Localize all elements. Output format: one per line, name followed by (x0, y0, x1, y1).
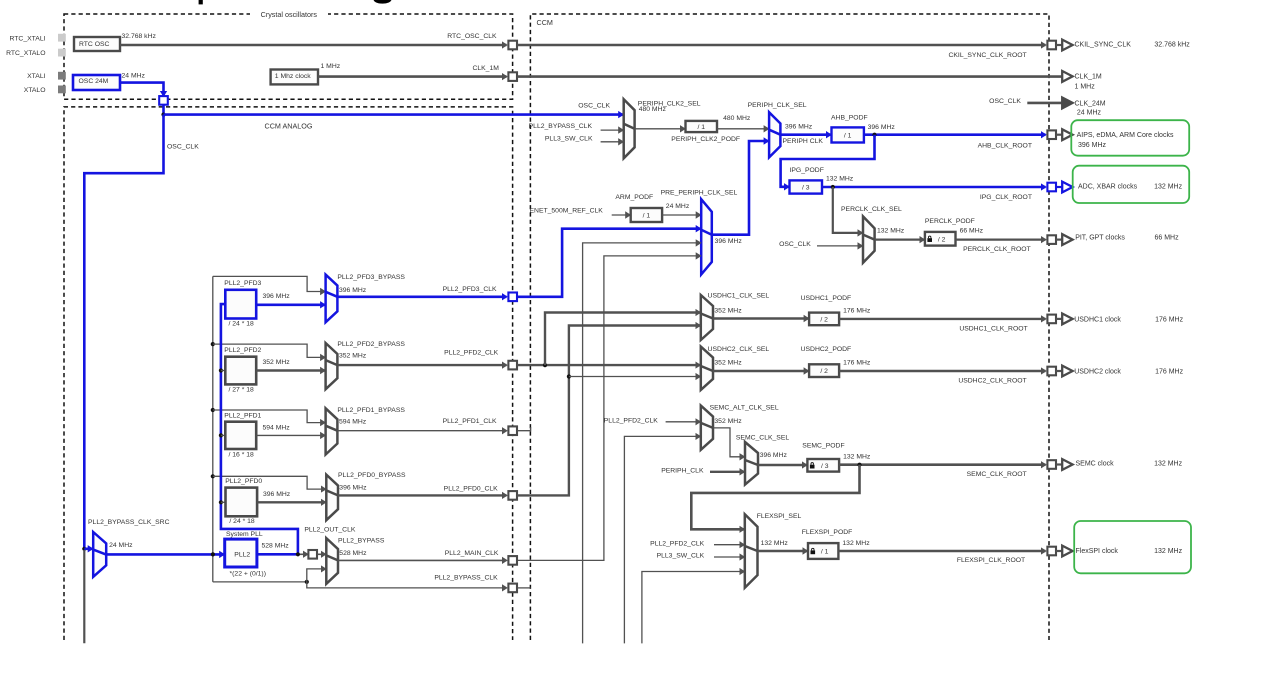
svg-text:FLEXSPI_SEL: FLEXSPI_SEL (757, 513, 802, 520)
svg-text:SEMC_ALT_CLK_SEL: SEMC_ALT_CLK_SEL (710, 404, 779, 411)
svg-text:PERIPH_CLK_SEL: PERIPH_CLK_SEL (748, 102, 807, 109)
title descender fragment 'g' (374, 0, 392, 4)
wire PLL2_PFD0_CLK into CCM (517, 326, 700, 496)
svg-text:24 MHz: 24 MHz (122, 73, 146, 80)
svg-text:OSC 24M: OSC 24M (79, 78, 109, 85)
output arrow PIT, GPT clocks (1056, 239, 1062, 241)
svg-text:/ 2: / 2 (820, 368, 828, 375)
wire bus into PRE_PERIPH in3 (583, 243, 701, 644)
node PLL2 bus PFD1 tap (219, 433, 223, 437)
wire PLL2_MAIN_CLK into PRE_PERIPH in4 (517, 256, 700, 561)
dashed box CCM ANALOG (64, 107, 513, 640)
svg-text:66 MHz: 66 MHz (1155, 235, 1180, 242)
mux PLL2_PFD0_BYPASS (326, 475, 338, 521)
wire FLEXSPI mux out (758, 550, 808, 552)
svg-text:USDHC2_PODF: USDHC2_PODF (801, 346, 852, 353)
svg-text:USDHC2_CLK_ROOT: USDHC2_CLK_ROOT (958, 377, 1026, 384)
svg-text:USDHC1_CLK_SEL: USDHC1_CLK_SEL (708, 293, 770, 300)
wire PLL2_BYPASS_CLK to port (307, 582, 507, 588)
svg-text:528 MHz: 528 MHz (262, 542, 290, 549)
svg-text:PLL2_BYPASS_CLK: PLL2_BYPASS_CLK (529, 123, 593, 130)
output arrow CKIL_SYNC_CLK (1056, 44, 1062, 46)
wire AHB to IPG_PODF (781, 135, 875, 187)
svg-text:PERIPH CLK: PERIPH CLK (783, 138, 824, 145)
svg-text:USDHC1 clock: USDHC1 clock (1074, 317, 1121, 324)
wire PLL2_PFD2_CLK into CCM (517, 364, 700, 366)
svg-text:PLL3_SW_CLK: PLL3_SW_CLK (545, 136, 593, 143)
wire bypass to PLL2_PFD2_BYPASS (213, 344, 325, 357)
wire bus into SEMC_ALT in2 (624, 436, 700, 643)
svg-text:132 MHz: 132 MHz (761, 540, 789, 547)
svg-text:FLEXSPI_CLK_ROOT: FLEXSPI_CLK_ROOT (957, 557, 1025, 564)
svg-text:AHB_PODF: AHB_PODF (831, 115, 868, 122)
svg-text:CLK_24M: CLK_24M (1075, 101, 1106, 108)
port AHB_CLK_ROOT (1047, 130, 1056, 139)
svg-text:480 MHz: 480 MHz (639, 106, 667, 113)
wire SEMC_ALT out to SEMC_CLK_SEL (713, 428, 744, 457)
svg-text:CKIL_SYNC_CLK: CKIL_SYNC_CLK (1075, 42, 1132, 49)
wire CLK_1M across CCM (517, 75, 1062, 78)
wire PLL2_PFD3 out (256, 303, 325, 306)
divider PERIPH_CLK2_PODF (686, 121, 718, 132)
svg-text:396 MHz: 396 MHz (785, 124, 813, 131)
title descender fragment 'p' (199, 0, 203, 4)
node bypass PFD2 (211, 342, 215, 346)
wire PERCLK_CLK_ROOT (956, 239, 1046, 241)
svg-text:PERIPH_CLK: PERIPH_CLK (661, 467, 704, 474)
port CLK_1M (508, 72, 517, 81)
svg-text:OSC_CLK: OSC_CLK (989, 98, 1021, 105)
port USDHC1_CLK_ROOT (1047, 315, 1056, 324)
node bypass PFD1 (211, 408, 215, 412)
wire bypass bus bottom run (213, 581, 307, 583)
dashed box Crystal oscillators (64, 14, 513, 99)
output arrow CLK_24M (1062, 98, 1072, 109)
node bypass PFD0 (211, 474, 215, 478)
svg-text:PLL2_PFD3_BYPASS: PLL2_PFD3_BYPASS (337, 274, 405, 281)
svg-text:*(22 + (0/1)): *(22 + (0/1)) (230, 570, 266, 577)
wire PLL2 out (257, 553, 299, 556)
node OSC_CLK at PLL2_BYPASS_CLK_SRC input (82, 547, 86, 551)
node PFD0 net tap USDHC2 (567, 374, 571, 378)
svg-text:/ 3: / 3 (802, 185, 810, 192)
divider SEMC_PODF (807, 459, 839, 472)
wire ARM_PODF out (662, 214, 700, 216)
divider USDHC2_PODF (809, 364, 839, 377)
svg-text:PLL2_PFD2: PLL2_PFD2 (224, 347, 261, 354)
pin XTALO (58, 86, 66, 94)
svg-text:OSC_CLK: OSC_CLK (167, 144, 199, 151)
svg-text:/ 24 * 18: / 24 * 18 (229, 321, 255, 328)
divider FLEXSPI_PODF (808, 543, 838, 559)
svg-text:PLL2_PFD2_BYPASS: PLL2_PFD2_BYPASS (337, 341, 405, 348)
wire PFD2 branch to USDHC1 (545, 313, 700, 366)
svg-text:396 MHz: 396 MHz (263, 491, 291, 498)
svg-text:CLK_1M: CLK_1M (472, 65, 499, 72)
wire AHB_CLK_ROOT (864, 133, 1046, 136)
svg-text:SEMC clock: SEMC clock (1076, 460, 1115, 467)
svg-text:1 Mhz clock: 1 Mhz clock (275, 73, 311, 80)
port CKIL_SYNC_CLK_ROOT (1047, 41, 1056, 50)
port IPG_CLK_ROOT (1047, 183, 1056, 192)
divider AHB_PODF (832, 127, 864, 142)
svg-text:PLL2_PFD2_CLK: PLL2_PFD2_CLK (650, 540, 704, 547)
svg-text:USDHC2 clock: USDHC2 clock (1074, 369, 1121, 376)
svg-text:24 MHz: 24 MHz (1077, 110, 1102, 117)
svg-text:176 MHz: 176 MHz (1155, 369, 1184, 376)
port PLL2_PFD2_CLK (508, 361, 517, 370)
wire PERIPH_CLK out (780, 133, 830, 136)
mux PLL2_BYPASS_CLK_SRC (93, 532, 106, 577)
wire OSC_CLK from OSC 24M (120, 83, 164, 96)
node bypass bottom split (305, 580, 309, 584)
svg-text:PERCLK_CLK_ROOT: PERCLK_CLK_ROOT (963, 246, 1031, 253)
svg-text:352 MHz: 352 MHz (263, 359, 291, 366)
svg-text:32.768 kHz: 32.768 kHz (1154, 42, 1190, 49)
svg-text:/ 16 * 18: / 16 * 18 (229, 451, 255, 458)
svg-text:XTALI: XTALI (27, 73, 45, 80)
port PLL2_MAIN_CLK (508, 556, 517, 565)
svg-text:SEMC_PODF: SEMC_PODF (802, 443, 844, 450)
svg-text:PLL2_BYPASS_CLK: PLL2_BYPASS_CLK (434, 574, 498, 581)
port PERCLK_CLK_ROOT (1047, 235, 1056, 244)
svg-text:CKIL_SYNC_CLK_ROOT: CKIL_SYNC_CLK_ROOT (948, 52, 1026, 59)
svg-text:IPG_CLK_ROOT: IPG_CLK_ROOT (980, 194, 1032, 201)
svg-text:PLL2_OUT_CLK: PLL2_OUT_CLK (304, 526, 355, 533)
wire PLL2_MAIN_CLK to port (338, 559, 507, 561)
wire RTC_OSC_CLK across CCM (517, 44, 1045, 47)
svg-text:PLL2_PFD3: PLL2_PFD3 (224, 280, 261, 287)
svg-text:396 MHz: 396 MHz (868, 124, 896, 131)
wire OSC_CLK down to junction (162, 105, 165, 115)
mux SEMC_CLK_SEL (745, 442, 758, 485)
mux USDHC1_CLK_SEL (701, 295, 713, 340)
wire OSC_CLK continues below (clipped) (83, 550, 85, 643)
wire bus into FLEXSPI in4 (642, 572, 744, 644)
wire PERIPH_CLK2_SEL out (635, 128, 685, 130)
port PLL2_PFD1_CLK (508, 426, 517, 435)
svg-text:PLL2_PFD0_BYPASS: PLL2_PFD0_BYPASS (338, 472, 406, 479)
node bypass bus tap (211, 552, 215, 556)
svg-text:PLL2_PFD0_CLK: PLL2_PFD0_CLK (444, 485, 498, 492)
svg-text:/ 2: / 2 (938, 236, 946, 243)
svg-text:176 MHz: 176 MHz (843, 360, 871, 367)
wire bypass to PLL2_PFD0_BYPASS (213, 476, 326, 489)
svg-text:/ 1: / 1 (643, 213, 651, 220)
mux PLL2_PFD2_BYPASS (326, 343, 338, 389)
svg-text:SEMC_CLK_ROOT: SEMC_CLK_ROOT (967, 471, 1027, 478)
oscillator OSC 24M (73, 75, 120, 90)
svg-text:176 MHz: 176 MHz (1155, 317, 1184, 324)
svg-text:352 MHz: 352 MHz (714, 418, 742, 425)
svg-text:480 MHz: 480 MHz (723, 115, 751, 122)
svg-text:396 MHz: 396 MHz (1078, 142, 1107, 149)
node AHB junction (872, 133, 876, 137)
svg-text:352 MHz: 352 MHz (714, 307, 742, 314)
svg-text:IPG_PODF: IPG_PODF (790, 167, 824, 174)
output arrow USDHC1 clock (1056, 318, 1062, 320)
wire PLL2_PFD3_CLK to port (337, 295, 506, 298)
svg-text:/ 24 * 18: / 24 * 18 (229, 518, 255, 525)
wire USDHC1_CLK_ROOT (839, 318, 1045, 320)
svg-text:396 MHz: 396 MHz (760, 452, 788, 459)
node PLL2 out split (296, 552, 300, 556)
wire bypass to PLL2_PFD1_BYPASS (213, 410, 325, 423)
svg-text:/ 27 * 18: / 27 * 18 (229, 386, 255, 393)
pin RTC_XTALO (58, 49, 66, 57)
wire PLL2_PFD1_CLK to port (337, 430, 506, 432)
svg-text:PLL2: PLL2 (234, 552, 250, 559)
svg-text:CCM: CCM (537, 18, 553, 27)
svg-text:396 MHz: 396 MHz (339, 485, 367, 492)
wire SEMC branch to FLEXSPI_SEL (691, 465, 859, 530)
svg-text:PLL2_PFD1_BYPASS: PLL2_PFD1_BYPASS (337, 407, 405, 414)
svg-text:594 MHz: 594 MHz (339, 418, 367, 425)
port SEMC_CLK_ROOT (1047, 460, 1056, 469)
mux PERIPH_CLK_SEL (769, 112, 780, 157)
svg-text:PLL2_PFD2_CLK: PLL2_PFD2_CLK (604, 418, 658, 425)
svg-text:24 MHz: 24 MHz (666, 203, 690, 210)
svg-text:PLL2_BYPASS_CLK_SRC: PLL2_BYPASS_CLK_SRC (88, 519, 170, 526)
wire FLEXSPI_CLK_ROOT (838, 550, 1045, 553)
wire USDHC1 mux out (713, 317, 808, 319)
output arrow CLK_1M (1062, 71, 1072, 82)
divider IPG_PODF (790, 180, 823, 193)
green box AIPS, eDMA, ARM Core clocks (1071, 120, 1189, 156)
wire USDHC2_CLK_ROOT (839, 370, 1045, 372)
svg-text:PERCLK_CLK_SEL: PERCLK_CLK_SEL (841, 206, 902, 213)
svg-text:352 MHz: 352 MHz (339, 353, 367, 360)
port PLL2_BYPASS_CLK (508, 584, 517, 593)
wire bypass into PLL2_BYPASS mux (307, 569, 326, 582)
wire PLL2 output bus to PFDs (221, 304, 298, 554)
svg-text:/ 1: / 1 (821, 549, 829, 556)
svg-text:PLL2_BYPASS: PLL2_BYPASS (338, 538, 385, 545)
svg-text:24 MHz: 24 MHz (109, 542, 133, 549)
divider ARM_PODF (631, 208, 662, 222)
output arrow SEMC clock (1056, 463, 1062, 465)
svg-text:PIT, GPT clocks: PIT, GPT clocks (1075, 235, 1125, 242)
svg-text:CCM ANALOG: CCM ANALOG (265, 121, 313, 130)
mux SEMC_ALT_CLK_SEL (701, 406, 713, 450)
svg-text:FlexSPI clock: FlexSPI clock (1076, 548, 1119, 555)
wire CLK_1M to left port (318, 75, 507, 78)
svg-text:132 MHz: 132 MHz (877, 227, 905, 234)
wire OSC_CLK east to PERIPH_CLK2_SEL (164, 113, 623, 116)
wire SEMC mux out (758, 464, 807, 466)
wire PLL2_BYPASS_CLK stub into CCM (517, 587, 530, 589)
svg-text:RTC OSC: RTC OSC (79, 41, 110, 48)
svg-text:396 MHz: 396 MHz (715, 238, 743, 245)
svg-text:FLEXSPI_PODF: FLEXSPI_PODF (802, 529, 853, 536)
wire PLL2_PFD0 out (257, 501, 325, 503)
wire OSC_CLK south branch (84, 115, 163, 549)
wire PLL2_OUT to PLL2_BYPASS mux (317, 553, 325, 555)
node IPG junction (831, 185, 835, 189)
svg-text:132 MHz: 132 MHz (1154, 548, 1183, 555)
wire USDHC2 mux out (713, 370, 808, 372)
svg-text:66 MHz: 66 MHz (960, 227, 984, 234)
port USDHC2_CLK_ROOT (1047, 367, 1056, 376)
svg-text:/ 1: / 1 (844, 132, 852, 139)
divider PERCLK_PODF (925, 232, 956, 246)
svg-text:ENET_500M_REF_CLK: ENET_500M_REF_CLK (530, 207, 604, 214)
svg-text:Crystal oscillators: Crystal oscillators (261, 10, 318, 19)
green box FlexSPI clock (1074, 521, 1191, 573)
mux FLEXSPI_SEL (745, 514, 758, 588)
svg-text:RTC_OSC_CLK: RTC_OSC_CLK (447, 33, 497, 40)
svg-text:132 MHz: 132 MHz (1154, 184, 1183, 191)
mux PLL2_PFD3_BYPASS (326, 275, 338, 323)
mux PERIPH_CLK2_SEL (624, 99, 635, 158)
wire IPG_CLK_ROOT (822, 186, 1046, 189)
wire PERIPH_CLK2_PODF out (717, 128, 768, 130)
svg-text:/ 2: / 2 (820, 316, 828, 323)
svg-text:RTC_XTALI: RTC_XTALI (9, 35, 45, 42)
wire OSC_CLK stub into PLL2_BYPASS_CLK_SRC (84, 547, 92, 550)
wire PRE_PERIPH out to PERIPH_CLK_SEL (712, 141, 768, 235)
wire 24 MHz to PLL2 (106, 553, 224, 556)
svg-text:396 MHz: 396 MHz (339, 287, 367, 294)
wire RTC_OSC_CLK to left port (120, 44, 507, 47)
mux USDHC2_CLK_SEL (701, 347, 713, 390)
output arrow USDHC2 clock (1056, 370, 1062, 372)
port OSC_CLK on crystal boundary (159, 96, 168, 105)
port FLEXSPI_CLK_ROOT (1047, 547, 1056, 556)
svg-text:PRE_PERIPH_CLK_SEL: PRE_PERIPH_CLK_SEL (661, 190, 738, 197)
svg-text:PLL2_MAIN_CLK: PLL2_MAIN_CLK (445, 550, 499, 557)
wire PLL2_PFD1_CLK stub (517, 427, 530, 431)
green box ADC, XBAR clocks (1073, 166, 1190, 203)
port RTC_OSC_CLK (508, 41, 517, 50)
block 1 Mhz clock (271, 70, 318, 85)
wire SEMC_CLK_ROOT (839, 463, 1045, 466)
wire PFD0 branch to USDHC2 in2 (569, 376, 700, 378)
dashed box CCM (530, 14, 1049, 640)
svg-text:ADC, XBAR clocks: ADC, XBAR clocks (1078, 184, 1138, 191)
svg-text:PLL2_PFD3_CLK: PLL2_PFD3_CLK (443, 286, 497, 293)
svg-text:594 MHz: 594 MHz (263, 425, 291, 432)
wire PLL2_PFD0_CLK to port (338, 494, 507, 496)
port PLL2_PFD0_CLK (508, 491, 517, 500)
wire PLL2 bypass bus vertical (212, 276, 214, 582)
port PLL2_PFD3_CLK (508, 293, 517, 302)
wire PLL2_PFD3_CLK into PRE_PERIPH (517, 229, 700, 297)
mux PLL2_BYPASS (326, 538, 338, 584)
svg-text:PERIPH_CLK2_PODF: PERIPH_CLK2_PODF (671, 136, 740, 143)
svg-text:USDHC1_PODF: USDHC1_PODF (801, 295, 852, 302)
pin XTALI (58, 72, 66, 80)
wire PERCLK mux out (875, 239, 924, 241)
svg-text:PERCLK_PODF: PERCLK_PODF (925, 218, 975, 225)
svg-text:PLL2_PFD0: PLL2_PFD0 (225, 478, 262, 485)
svg-text:AIPS, eDMA, ARM Core clocks: AIPS, eDMA, ARM Core clocks (1077, 132, 1174, 139)
node PFD2 net split (543, 363, 547, 367)
svg-text:USDHC2_CLK_SEL: USDHC2_CLK_SEL (708, 346, 770, 353)
node OSC_CLK split (161, 113, 165, 117)
mux PLL2_PFD1_BYPASS (326, 408, 338, 454)
pin RTC_XTALI (58, 34, 66, 42)
svg-text:CLK_1M: CLK_1M (1075, 73, 1102, 80)
node PLL2 bus PFD0 tap (219, 500, 223, 504)
oscillator RTC OSC (74, 37, 120, 51)
svg-text:ARM_PODF: ARM_PODF (615, 194, 653, 201)
svg-text:132 MHz: 132 MHz (842, 540, 870, 547)
svg-text:USDHC1_CLK_ROOT: USDHC1_CLK_ROOT (959, 326, 1027, 333)
svg-text:AHB_CLK_ROOT: AHB_CLK_ROOT (978, 142, 1032, 149)
node SEMC branch (857, 463, 861, 467)
mux PERCLK_CLK_SEL (863, 216, 875, 262)
output arrow AIPS clocks (1056, 134, 1062, 136)
svg-text:528 MHz: 528 MHz (339, 550, 367, 557)
svg-text:RTC_XTALO: RTC_XTALO (6, 50, 45, 57)
svg-text:352 MHz: 352 MHz (714, 360, 742, 367)
svg-text:PLL2_PFD2_CLK: PLL2_PFD2_CLK (444, 350, 498, 357)
svg-text:OSC_CLK: OSC_CLK (578, 102, 610, 109)
wire PLL2_PFD2_CLK to port (337, 364, 506, 366)
svg-text:132 MHz: 132 MHz (826, 176, 854, 183)
node PLL2 bus PFD2 tap (219, 368, 223, 372)
divider USDHC1_PODF (809, 313, 839, 326)
svg-text:XTALO: XTALO (24, 87, 46, 94)
wire IPG to PERCLK mux (833, 187, 862, 233)
wire PLL2_PFD1 out (256, 434, 325, 436)
wire PLL2_PFD2 out (256, 369, 325, 371)
svg-text:System PLL: System PLL (226, 531, 263, 538)
output arrow FlexSPI clock (1056, 550, 1062, 552)
wire bypass to PLL2_PFD3_BYPASS (213, 276, 325, 291)
svg-text:PLL3_SW_CLK: PLL3_SW_CLK (657, 553, 705, 560)
svg-text:SEMC_CLK_SEL: SEMC_CLK_SEL (736, 434, 789, 441)
svg-text:PLL2_PFD1_CLK: PLL2_PFD1_CLK (443, 418, 497, 425)
svg-text:1 MHz: 1 MHz (1075, 84, 1096, 91)
svg-text:132 MHz: 132 MHz (843, 454, 871, 461)
svg-text:132 MHz: 132 MHz (1154, 460, 1183, 467)
svg-text:1 MHz: 1 MHz (321, 63, 341, 70)
svg-text:/ 1: / 1 (697, 124, 705, 131)
mux PRE_PERIPH_CLK_SEL (701, 199, 712, 274)
svg-text:PLL2_PFD1: PLL2_PFD1 (224, 412, 261, 419)
svg-text:OSC_CLK: OSC_CLK (779, 241, 811, 248)
output arrow ADC clocks (1056, 186, 1062, 188)
svg-text:32.768 kHz: 32.768 kHz (122, 33, 157, 40)
svg-text:176 MHz: 176 MHz (843, 307, 871, 314)
svg-text:/ 3: / 3 (821, 463, 829, 470)
svg-text:396 MHz: 396 MHz (263, 293, 291, 300)
